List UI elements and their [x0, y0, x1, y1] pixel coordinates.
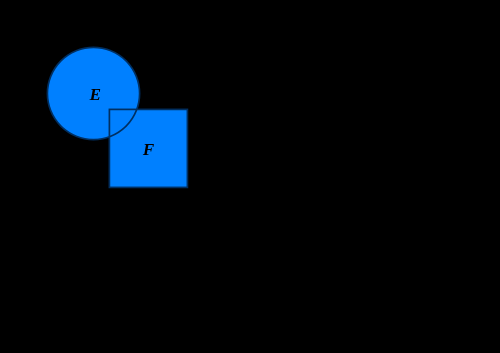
- svg-text:F: F: [142, 140, 155, 159]
- square F outline: [109, 109, 187, 187]
- circle E fill: [47, 47, 139, 139]
- square F fill: [109, 109, 187, 187]
- svg-text:E: E: [89, 85, 101, 104]
- circle E outline: [47, 47, 139, 139]
